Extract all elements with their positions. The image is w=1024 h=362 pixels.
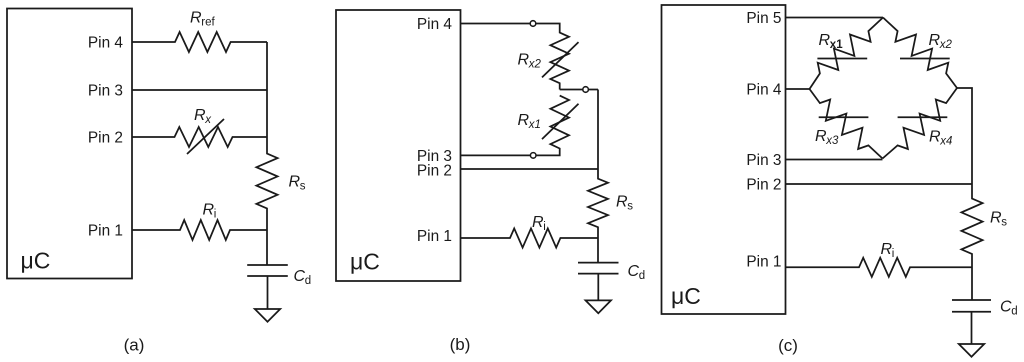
svg-text:x2: x2: [939, 39, 953, 51]
svg-text:(a): (a): [124, 336, 145, 355]
svg-text:R: R: [616, 194, 628, 211]
svg-text:ref: ref: [201, 16, 215, 28]
svg-text:μC: μC: [671, 283, 701, 309]
svg-text:C: C: [294, 268, 306, 285]
svg-text:i: i: [214, 208, 217, 220]
svg-text:(c): (c): [778, 336, 798, 355]
svg-text:μC: μC: [21, 248, 51, 274]
svg-text:μC: μC: [350, 249, 380, 275]
svg-text:R: R: [990, 210, 1002, 227]
svg-text:Pin 3: Pin 3: [746, 152, 781, 169]
svg-text:s: s: [300, 180, 306, 192]
svg-text:s: s: [1001, 216, 1007, 228]
svg-text:Pin 5: Pin 5: [746, 10, 781, 27]
svg-text:x1: x1: [528, 119, 541, 131]
svg-text:(b): (b): [450, 335, 471, 354]
svg-text:d: d: [639, 270, 645, 282]
svg-text:R: R: [190, 10, 202, 27]
svg-text:R: R: [194, 107, 206, 124]
svg-text:Pin 4: Pin 4: [417, 16, 453, 33]
svg-text:Pin 1: Pin 1: [417, 228, 452, 245]
svg-text:C: C: [1000, 299, 1012, 316]
svg-text:Pin 2: Pin 2: [88, 129, 123, 146]
svg-text:Pin 2: Pin 2: [746, 176, 781, 193]
svg-text:R: R: [518, 112, 530, 129]
svg-text:C: C: [628, 263, 640, 280]
svg-text:R: R: [881, 241, 893, 258]
svg-text:i: i: [543, 221, 546, 233]
svg-text:Pin 3: Pin 3: [88, 82, 123, 99]
svg-text:x4: x4: [939, 135, 952, 147]
svg-text:R: R: [815, 128, 827, 145]
svg-text:x1: x1: [830, 39, 843, 51]
svg-text:Pin 4: Pin 4: [88, 34, 124, 51]
svg-text:R: R: [929, 32, 941, 49]
svg-text:Pin 4: Pin 4: [746, 81, 782, 98]
svg-text:Pin 1: Pin 1: [88, 222, 123, 239]
svg-text:R: R: [819, 32, 831, 49]
svg-text:i: i: [892, 248, 895, 260]
svg-text:R: R: [203, 202, 215, 219]
svg-text:R: R: [518, 52, 530, 69]
svg-text:d: d: [1011, 305, 1017, 317]
svg-text:R: R: [532, 214, 544, 231]
svg-text:R: R: [929, 129, 941, 146]
svg-text:x2: x2: [528, 58, 542, 70]
svg-text:x3: x3: [825, 135, 839, 147]
svg-text:d: d: [305, 275, 311, 287]
svg-text:Pin 2: Pin 2: [417, 163, 452, 180]
svg-text:Pin 1: Pin 1: [746, 253, 781, 270]
svg-text:s: s: [627, 200, 633, 212]
svg-text:R: R: [289, 174, 301, 191]
